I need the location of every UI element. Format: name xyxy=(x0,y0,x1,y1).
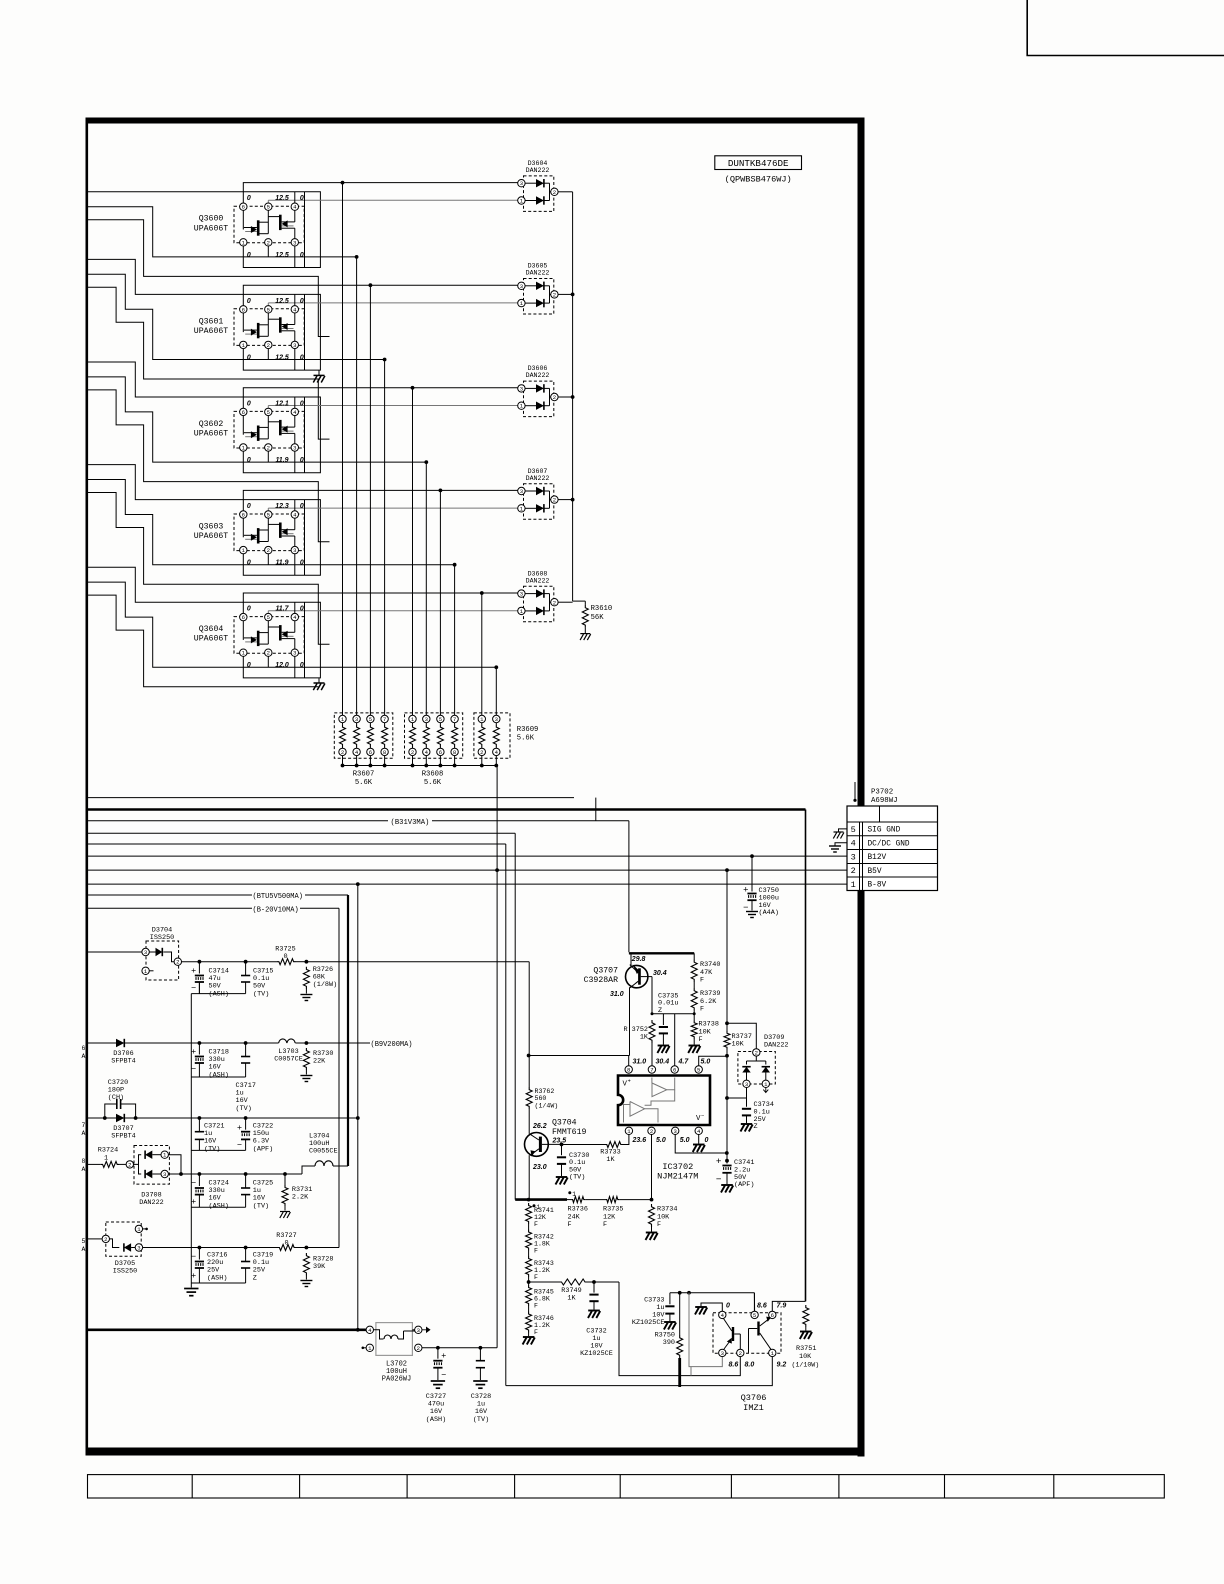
vertical x=505 down to bottom wire xyxy=(505,844,507,1386)
op-amp triangles xyxy=(652,1083,667,1097)
resistor R3750 390 xyxy=(679,1293,681,1335)
Q3601 pin4 riser xyxy=(294,294,296,305)
svg-text:−: − xyxy=(191,1178,196,1188)
wire pin3 to C3734 node xyxy=(746,1088,748,1098)
svg-text:3: 3 xyxy=(293,342,296,349)
svg-text:F: F xyxy=(534,1329,538,1336)
svg-text:2: 2 xyxy=(553,599,556,606)
svg-text:R3736: R3736 xyxy=(568,1206,588,1214)
capacitor C3715 0.1u xyxy=(245,962,247,976)
svg-text:47K: 47K xyxy=(700,969,713,977)
transistor Q3704 FMMT619 xyxy=(525,1133,549,1157)
wire feed A to Q3603 pin1 xyxy=(88,465,320,576)
Q3604 pins xyxy=(240,613,247,620)
Q3602 pins xyxy=(240,408,247,415)
svg-text:1K: 1K xyxy=(640,1034,649,1042)
svg-text:IMZ1: IMZ1 xyxy=(743,1403,764,1413)
svg-text:R3610: R3610 xyxy=(591,605,613,613)
svg-text:(B9V200MA): (B9V200MA) xyxy=(371,1041,413,1049)
svg-text:A: A xyxy=(82,1053,86,1060)
right collector bus of D blocks xyxy=(572,192,574,601)
svg-text:3: 3 xyxy=(721,1350,724,1357)
svg-text:R3740: R3740 xyxy=(700,961,720,969)
svg-text:0: 0 xyxy=(300,560,304,567)
svg-text:R3734: R3734 xyxy=(657,1206,677,1214)
capacitor C3724 330u xyxy=(198,1174,200,1186)
svg-text:UPA606T: UPA606T xyxy=(194,327,228,336)
svg-text:6.2K: 6.2K xyxy=(700,998,717,1006)
svg-text:R3762: R3762 xyxy=(535,1088,555,1095)
svg-text:3: 3 xyxy=(355,716,358,723)
gray wire to pin3 xyxy=(689,1293,722,1367)
pin3 wire to x=727 xyxy=(675,1135,727,1154)
transistor Q3601 UPA606T xyxy=(234,309,304,346)
junction dots on rails xyxy=(495,868,499,872)
svg-text:5.0: 5.0 xyxy=(701,1059,711,1066)
svg-text:2: 2 xyxy=(267,547,270,554)
wire right bracket of Q3602 xyxy=(304,397,306,473)
svg-text:(B31V3MA): (B31V3MA) xyxy=(391,819,430,827)
svg-text:A698WJ: A698WJ xyxy=(871,797,898,805)
capacitor C3733 1u KZ1025CE xyxy=(669,1293,671,1305)
svg-text:8: 8 xyxy=(627,1067,630,1074)
wire B5V branch x=727 xyxy=(726,870,728,1031)
heavy collector bar xyxy=(629,952,694,954)
svg-text:Z: Z xyxy=(754,1123,758,1131)
wire feed A to Q3600 pin1 xyxy=(88,192,320,268)
svg-text:23.5: 23.5 xyxy=(552,1138,567,1145)
capacitor C3750 1000u xyxy=(751,856,753,891)
rail to box-left x=505 xyxy=(88,843,506,845)
row1 output wire xyxy=(182,961,278,963)
svg-text:5: 5 xyxy=(82,1238,86,1245)
rail B12V xyxy=(88,855,847,857)
svg-text:F: F xyxy=(699,1036,703,1044)
svg-text:11.9: 11.9 xyxy=(275,560,288,567)
svg-text:Q3704: Q3704 xyxy=(552,1119,577,1128)
top wire of Q3706 cluster xyxy=(670,1292,755,1294)
svg-text:(APF): (APF) xyxy=(253,1145,273,1153)
svg-text:B-8V: B-8V xyxy=(868,882,887,890)
svg-text:R3724: R3724 xyxy=(98,1147,118,1155)
svg-text:8.6: 8.6 xyxy=(729,1362,739,1369)
svg-text:2: 2 xyxy=(851,866,856,876)
svg-text:1.2K: 1.2K xyxy=(534,1267,550,1274)
svg-text:R3607: R3607 xyxy=(353,771,375,779)
page right border xyxy=(858,118,865,1457)
svg-text:R3751: R3751 xyxy=(796,1345,816,1353)
svg-text:7: 7 xyxy=(82,1122,86,1129)
title block corner top-right xyxy=(1027,0,1224,56)
svg-text:30.4: 30.4 xyxy=(653,970,667,977)
vertical B-20V x=339 xyxy=(338,908,340,1247)
svg-text:8.6: 8.6 xyxy=(757,1303,767,1310)
row2 cap bottom bus xyxy=(191,1076,245,1078)
svg-text:6: 6 xyxy=(242,512,245,519)
resistor R3728 39K xyxy=(303,1253,309,1276)
wire Q3602 pin6 to D3606 pin3 xyxy=(243,388,521,409)
rail B-8V xyxy=(88,883,847,885)
rail B31V3MA to Q3707 xyxy=(88,820,388,822)
wire Q3602 pin5 to D3606 pin1 (gray) xyxy=(267,406,269,409)
svg-text:Q3600: Q3600 xyxy=(199,215,224,224)
svg-text:+: + xyxy=(191,1270,196,1280)
svg-text:6: 6 xyxy=(242,409,245,416)
svg-text:0: 0 xyxy=(726,1303,730,1310)
svg-text:0: 0 xyxy=(247,298,251,305)
svg-text:23.6: 23.6 xyxy=(632,1137,647,1144)
svg-text:SFPBT4: SFPBT4 xyxy=(111,1132,135,1140)
Q3600 pins xyxy=(240,203,247,210)
svg-text:10K: 10K xyxy=(657,1213,670,1221)
wire feed C staircase below Q3600 xyxy=(88,220,330,337)
svg-text:A: A xyxy=(82,1166,86,1173)
svg-text:2: 2 xyxy=(128,1161,131,1168)
svg-text:3: 3 xyxy=(520,488,523,495)
svg-text:(TV): (TV) xyxy=(253,1202,269,1210)
svg-text:F: F xyxy=(534,1274,538,1281)
capacitor C3728 1u xyxy=(479,1348,481,1361)
wire Q3600 pin6 to D3604 pin3 xyxy=(243,183,521,204)
svg-text:KZ1025CE: KZ1025CE xyxy=(580,1350,613,1358)
svg-text:5: 5 xyxy=(851,825,856,835)
svg-text:(TV): (TV) xyxy=(473,1416,489,1424)
diode D3606 DAN222 xyxy=(524,381,554,417)
wire D3604 pin2 to bus xyxy=(558,191,573,193)
svg-text:DAN222: DAN222 xyxy=(139,1199,163,1207)
svg-text:8: 8 xyxy=(82,1158,86,1165)
svg-text:1K: 1K xyxy=(567,1295,576,1303)
svg-text:2: 2 xyxy=(553,394,556,401)
svg-text:NJM2147M: NJM2147M xyxy=(657,1172,698,1182)
svg-text:SFPBT4: SFPBT4 xyxy=(111,1057,135,1065)
svg-text:F: F xyxy=(657,1221,661,1229)
svg-text:Q3602: Q3602 xyxy=(199,420,224,429)
svg-text:(1/8W): (1/8W) xyxy=(313,981,337,989)
svg-text:DC/DC GND: DC/DC GND xyxy=(868,841,910,849)
svg-text:29.8: 29.8 xyxy=(631,956,646,963)
svg-text:(TV): (TV) xyxy=(204,1145,220,1153)
row1 cap bottom bus xyxy=(191,993,245,995)
resistor R3736 24K xyxy=(571,1197,585,1203)
svg-text:KZ1025CE: KZ1025CE xyxy=(632,1319,665,1327)
junction to D3709 pin2 xyxy=(725,1021,729,1025)
transistor Q3602 UPA606T xyxy=(234,411,304,448)
Q3601 pins xyxy=(240,306,247,313)
svg-text:SIG GND: SIG GND xyxy=(868,827,901,835)
row5 output wire xyxy=(143,1247,278,1249)
pin6 wire to x=805 and R3751 xyxy=(772,1301,805,1311)
svg-text:F: F xyxy=(700,1006,704,1014)
svg-text:A: A xyxy=(82,1246,86,1253)
svg-text:0: 0 xyxy=(247,354,251,361)
svg-text:(A4A): (A4A) xyxy=(759,909,779,917)
ground sig gnd xyxy=(839,829,848,832)
svg-text:0: 0 xyxy=(247,400,251,407)
Q3707 base wire xyxy=(641,976,652,978)
diode D3608 DAN222 xyxy=(524,586,554,622)
resistor R3733 1K xyxy=(605,1142,623,1148)
transistor Q3604 UPA606T xyxy=(234,617,304,654)
svg-text:2: 2 xyxy=(553,189,556,196)
svg-text:+: + xyxy=(441,1350,446,1360)
wire Q3603 pin5 to D3607 pin1 (gray) xyxy=(267,508,269,511)
svg-text:30.4: 30.4 xyxy=(656,1059,670,1066)
svg-text:0: 0 xyxy=(284,1240,288,1248)
svg-text:5: 5 xyxy=(267,614,270,621)
row4 output wire xyxy=(168,1155,181,1174)
svg-text:3: 3 xyxy=(137,1245,140,1252)
svg-text:3: 3 xyxy=(495,716,498,723)
wire Q3601 pin6 to D3605 pin3 xyxy=(243,285,521,306)
svg-text:10K: 10K xyxy=(799,1353,812,1361)
resistor R3737 10K xyxy=(724,1031,730,1050)
capacitor C3719 0.1u xyxy=(245,1248,247,1262)
svg-text:P3702: P3702 xyxy=(871,789,893,797)
svg-text:2: 2 xyxy=(650,1128,653,1135)
resistor array R3609 5.6K xyxy=(474,713,510,758)
svg-text:5: 5 xyxy=(267,512,270,519)
resistor array bottom common wire xyxy=(343,765,497,767)
svg-text:2.2K: 2.2K xyxy=(292,1194,309,1202)
svg-text:−: − xyxy=(191,1251,196,1261)
svg-text:10K: 10K xyxy=(732,1041,745,1049)
svg-text:11.9: 11.9 xyxy=(275,457,288,464)
resistor R3725 0 xyxy=(277,959,296,965)
svg-text:A: A xyxy=(82,1130,86,1137)
svg-text:Z: Z xyxy=(658,1007,662,1015)
capacitor C3725 1u xyxy=(245,1174,247,1188)
svg-text:F: F xyxy=(603,1221,607,1229)
vertical x=515 down xyxy=(514,833,516,1199)
svg-text:6: 6 xyxy=(242,204,245,211)
svg-text:3: 3 xyxy=(520,385,523,392)
svg-text:12.5: 12.5 xyxy=(275,252,289,259)
wire pin5 to B5V vertical xyxy=(699,1056,727,1066)
svg-text:2: 2 xyxy=(267,342,270,349)
wire feed C staircase below Q3602 xyxy=(88,390,330,542)
svg-text:56K: 56K xyxy=(591,614,605,622)
svg-text:0: 0 xyxy=(247,252,251,259)
svg-text:11.7: 11.7 xyxy=(275,606,289,613)
svg-text:8: 8 xyxy=(453,749,456,756)
wire pin6 riser xyxy=(674,1014,676,1066)
resistor R3740 47K xyxy=(693,953,695,959)
heavy B-8V rail xyxy=(88,1329,366,1332)
svg-text:F: F xyxy=(534,1221,538,1228)
diode D3607 DAN222 xyxy=(524,484,554,520)
ground dc/dc gnd xyxy=(835,843,847,846)
pin4 ground xyxy=(698,1135,700,1144)
svg-text:DAN222: DAN222 xyxy=(526,577,550,584)
wire Q3603 pin6 to D3607 pin3 xyxy=(243,490,521,511)
IC3702 top pins xyxy=(625,1066,632,1073)
svg-text:0: 0 xyxy=(247,662,251,669)
svg-text:5.0: 5.0 xyxy=(656,1137,666,1144)
svg-text:DAN222: DAN222 xyxy=(764,1042,788,1050)
Q3603 pin4 riser xyxy=(294,500,296,511)
svg-text:DUNTKB476DE: DUNTKB476DE xyxy=(728,158,789,169)
transistor Q3603 UPA606T xyxy=(234,514,304,551)
resistor R3734 10K xyxy=(649,1204,655,1227)
transistor Q3706 IMZ1 xyxy=(713,1313,781,1353)
svg-text:D3606: D3606 xyxy=(528,365,548,372)
capacitor C3734 0.1u xyxy=(746,1098,748,1107)
svg-text:(CH): (CH) xyxy=(108,1094,124,1102)
page top border xyxy=(86,118,865,124)
svg-text:12.5: 12.5 xyxy=(275,195,289,202)
svg-text:31.0: 31.0 xyxy=(633,1059,647,1066)
svg-text:Q3706: Q3706 xyxy=(741,1393,767,1403)
resistor R3743 1.2K xyxy=(526,1256,532,1277)
svg-text:−: − xyxy=(743,902,748,912)
svg-text:6: 6 xyxy=(82,1045,86,1052)
board name box DUNTKB476DE xyxy=(715,156,802,170)
Q3601 pin3 riser xyxy=(294,349,296,371)
node R3749 xyxy=(528,1277,530,1285)
svg-text:−: − xyxy=(191,1064,196,1074)
wire right bracket of Q3603 xyxy=(304,500,306,576)
svg-text:5: 5 xyxy=(439,716,442,723)
resistor R3738 10K xyxy=(693,1011,695,1021)
svg-text:6: 6 xyxy=(369,749,372,756)
svg-text:6: 6 xyxy=(439,749,442,756)
Q3603 pins xyxy=(240,511,247,518)
svg-text:3: 3 xyxy=(293,650,296,657)
svg-text:2: 2 xyxy=(267,239,270,246)
svg-text:31.0: 31.0 xyxy=(610,991,624,998)
svg-text:6: 6 xyxy=(242,306,245,313)
diode D3605 DAN222 xyxy=(524,279,554,315)
svg-text:F: F xyxy=(534,1248,538,1255)
svg-text:1K: 1K xyxy=(606,1156,615,1164)
svg-text:0: 0 xyxy=(283,953,287,961)
wire feed B to Q3604 pin2 and bus xyxy=(88,582,496,667)
diode D3604 DAN222 xyxy=(524,176,554,212)
wire feed B to Q3601 pin2 and bus xyxy=(88,274,385,359)
svg-text:2: 2 xyxy=(417,1345,420,1352)
wire feed A to Q3601 pin1 xyxy=(88,259,320,370)
vertical bus from R arrays to B5V to L3702 pin2 xyxy=(496,766,498,1348)
rail B-20V10MA xyxy=(88,907,252,909)
resistor R3726 68K xyxy=(303,967,309,989)
svg-text:5: 5 xyxy=(267,306,270,313)
svg-text:Z: Z xyxy=(253,1274,257,1282)
svg-text:DAN222: DAN222 xyxy=(526,167,550,174)
diode D3706 SFPBT4 xyxy=(116,1039,124,1047)
svg-text:0: 0 xyxy=(247,195,251,202)
svg-text:−: − xyxy=(441,1370,446,1380)
svg-text:0: 0 xyxy=(300,354,304,361)
junction dot left of connector xyxy=(853,799,856,802)
svg-text:(ASH): (ASH) xyxy=(209,1202,229,1210)
vertical B-8V x=358 to heavy bottom rail xyxy=(357,884,359,1330)
diode D3705 ISS250 xyxy=(106,1222,141,1256)
svg-text:0: 0 xyxy=(247,606,251,613)
wire collector node to pin8 xyxy=(529,1055,630,1057)
svg-text:(APF): (APF) xyxy=(734,1181,754,1189)
svg-text:22K: 22K xyxy=(313,1058,326,1066)
svg-text:IC3702: IC3702 xyxy=(662,1162,693,1172)
wire feed B to Q3603 pin2 and bus xyxy=(88,480,455,565)
vertical x=529 from row1 down xyxy=(528,962,530,1056)
svg-text:+: + xyxy=(191,1196,196,1206)
svg-text:3: 3 xyxy=(745,1081,748,1088)
svg-text:2: 2 xyxy=(267,650,270,657)
svg-text:3: 3 xyxy=(520,180,523,187)
heavy vertical BTU5V x=348 xyxy=(347,895,349,1162)
svg-text:C0055CE: C0055CE xyxy=(309,1148,338,1156)
svg-text:DAN222: DAN222 xyxy=(526,475,550,482)
svg-text:5: 5 xyxy=(697,1067,700,1074)
svg-text:0: 0 xyxy=(300,606,304,613)
svg-text:5: 5 xyxy=(369,716,372,723)
svg-text:−: − xyxy=(716,1174,722,1185)
svg-text:+: + xyxy=(628,1078,631,1085)
resistor R3724 xyxy=(101,1161,119,1167)
svg-text:0: 0 xyxy=(247,560,251,567)
svg-text:R3745: R3745 xyxy=(534,1289,554,1296)
svg-text:ISS250: ISS250 xyxy=(150,934,174,942)
svg-text:3: 3 xyxy=(520,591,523,598)
capacitor C3714 47u xyxy=(198,962,200,974)
Q3602 pin4 riser xyxy=(294,397,296,408)
svg-text:2: 2 xyxy=(480,749,483,756)
Q3604 pin3 riser xyxy=(294,656,296,678)
svg-text:39K: 39K xyxy=(313,1263,326,1271)
svg-text:3: 3 xyxy=(293,239,296,246)
svg-text:2: 2 xyxy=(176,959,179,966)
svg-text:6: 6 xyxy=(771,1312,774,1319)
inductor L3702 PA026WJ xyxy=(376,1323,413,1356)
IC3702 bottom pins xyxy=(625,1127,632,1134)
wire Q3604 pin5 to D3608 pin1 (gray) xyxy=(267,611,269,614)
wire Q3601 pin5 to D3605 pin1 (gray) xyxy=(267,303,269,306)
resistor R3749 1K xyxy=(529,1281,559,1283)
svg-text:ISS250: ISS250 xyxy=(113,1268,137,1276)
svg-text:390: 390 xyxy=(663,1339,675,1347)
resistor R3751 10K xyxy=(803,1305,809,1327)
svg-text:0: 0 xyxy=(300,298,304,305)
svg-text:12K: 12K xyxy=(603,1213,616,1221)
svg-text:(TV): (TV) xyxy=(253,990,269,998)
op-amp IC3702 NJM2147M body xyxy=(618,1076,710,1126)
svg-text:12.3: 12.3 xyxy=(275,503,289,510)
wire right bracket of Q3600 xyxy=(304,192,306,268)
svg-text:UPA606T: UPA606T xyxy=(194,430,228,439)
svg-text:+: + xyxy=(191,1046,196,1056)
wire feed B to Q3600 pin2 and bus xyxy=(88,207,357,257)
left bus vertical x=191 xyxy=(190,994,192,1283)
svg-text:7: 7 xyxy=(453,716,456,723)
wire D3607 pin2 to bus xyxy=(558,499,573,501)
jog connector xyxy=(595,798,597,821)
svg-text:12K: 12K xyxy=(534,1214,546,1221)
svg-text:D3605: D3605 xyxy=(528,263,548,270)
resistor R3610 56K xyxy=(584,601,586,605)
resistor R3730 22K xyxy=(303,1048,309,1070)
resistor R3745 6.8K xyxy=(526,1285,532,1306)
pin2 wire down xyxy=(651,1135,653,1200)
diode D3709 DAN222 xyxy=(738,1052,775,1085)
svg-text:Q3601: Q3601 xyxy=(199,317,224,326)
svg-text:3: 3 xyxy=(293,445,296,452)
svg-text:Q3604: Q3604 xyxy=(199,625,224,634)
svg-text:F: F xyxy=(534,1303,538,1310)
svg-text:DAN222: DAN222 xyxy=(526,270,550,277)
svg-text:UPA606T: UPA606T xyxy=(194,635,228,644)
svg-text:(ASH): (ASH) xyxy=(209,1071,229,1079)
